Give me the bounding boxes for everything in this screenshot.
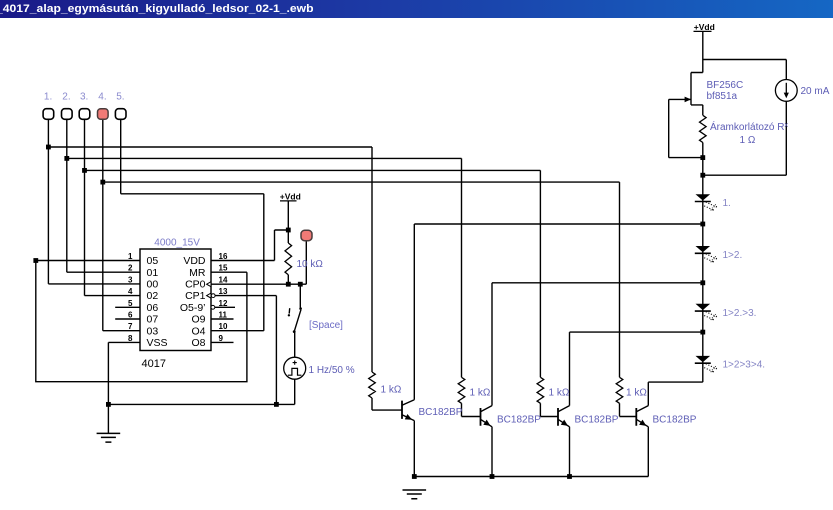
svg-text:5.: 5. [116,92,124,103]
svg-text:BC182BP: BC182BP [653,414,697,425]
svg-text:BC182BP: BC182BP [497,414,541,425]
svg-text:BC182BP: BC182BP [575,414,619,425]
svg-text:O5-9’: O5-9’ [180,302,206,314]
svg-text:Áramkorlátozó Rx: Áramkorlátozó Rx [710,120,788,133]
svg-text:01: 01 [147,267,159,279]
svg-text:O9: O9 [191,314,205,326]
svg-text:1.: 1. [44,92,52,103]
svg-text:1>2>3>4.: 1>2>3>4. [723,360,766,371]
svg-text:14: 14 [219,275,228,284]
svg-text:1 kΩ: 1 kΩ [470,388,491,399]
svg-text:O8: O8 [191,337,205,349]
svg-text:11: 11 [219,311,228,320]
svg-text:1 kΩ: 1 kΩ [549,388,570,399]
svg-text:10 kΩ: 10 kΩ [297,259,324,270]
svg-text:10: 10 [219,322,228,331]
svg-text:[Space]: [Space] [309,320,343,331]
svg-text:+Vdd: +Vdd [280,191,301,201]
svg-text:12: 12 [219,299,228,308]
svg-text:3: 3 [128,275,133,284]
svg-text:1 Hz/50 %: 1 Hz/50 % [309,365,355,376]
svg-text:BF256C: BF256C [707,80,744,91]
svg-text:4000_15V: 4000_15V [154,238,200,249]
svg-text:15: 15 [219,264,228,273]
svg-text:1>2.: 1>2. [723,250,743,261]
svg-text:02: 02 [147,290,159,302]
svg-text:20 mA: 20 mA [801,86,830,97]
svg-text:VSS: VSS [147,337,168,349]
svg-text:+Vdd: +Vdd [694,22,715,32]
svg-text:CP1: CP1 [185,290,206,302]
svg-text:4017: 4017 [142,358,166,370]
svg-text:16: 16 [219,252,228,261]
svg-text:1: 1 [128,252,133,261]
svg-text:BC182BP: BC182BP [419,407,463,418]
svg-text:13: 13 [219,287,228,296]
svg-text:6: 6 [128,311,133,320]
svg-text:8: 8 [128,334,133,343]
svg-text:06: 06 [147,302,159,314]
svg-text:1 kΩ: 1 kΩ [381,385,402,396]
svg-text:07: 07 [147,314,159,326]
svg-text:3.: 3. [80,92,88,103]
svg-text:bf851a: bf851a [707,91,738,102]
svg-text:4.: 4. [98,92,106,103]
svg-text:1 kΩ: 1 kΩ [626,388,647,399]
svg-text:00: 00 [147,279,159,291]
svg-text:O4: O4 [191,325,205,337]
svg-text:1 Ω: 1 Ω [740,135,756,146]
svg-text:1.: 1. [723,198,731,209]
svg-text:2: 2 [128,264,133,273]
svg-text:CP0: CP0 [185,279,206,291]
svg-text:2.: 2. [62,92,70,103]
svg-text:05: 05 [147,255,159,267]
svg-text:5: 5 [128,299,133,308]
svg-text:VDD: VDD [183,255,206,267]
svg-text:9: 9 [219,334,224,343]
svg-text:4: 4 [128,287,133,296]
svg-text:03: 03 [147,325,159,337]
svg-text:7: 7 [128,322,133,331]
svg-text:1>2.>3.: 1>2.>3. [723,308,757,319]
svg-text:MR: MR [189,267,206,279]
